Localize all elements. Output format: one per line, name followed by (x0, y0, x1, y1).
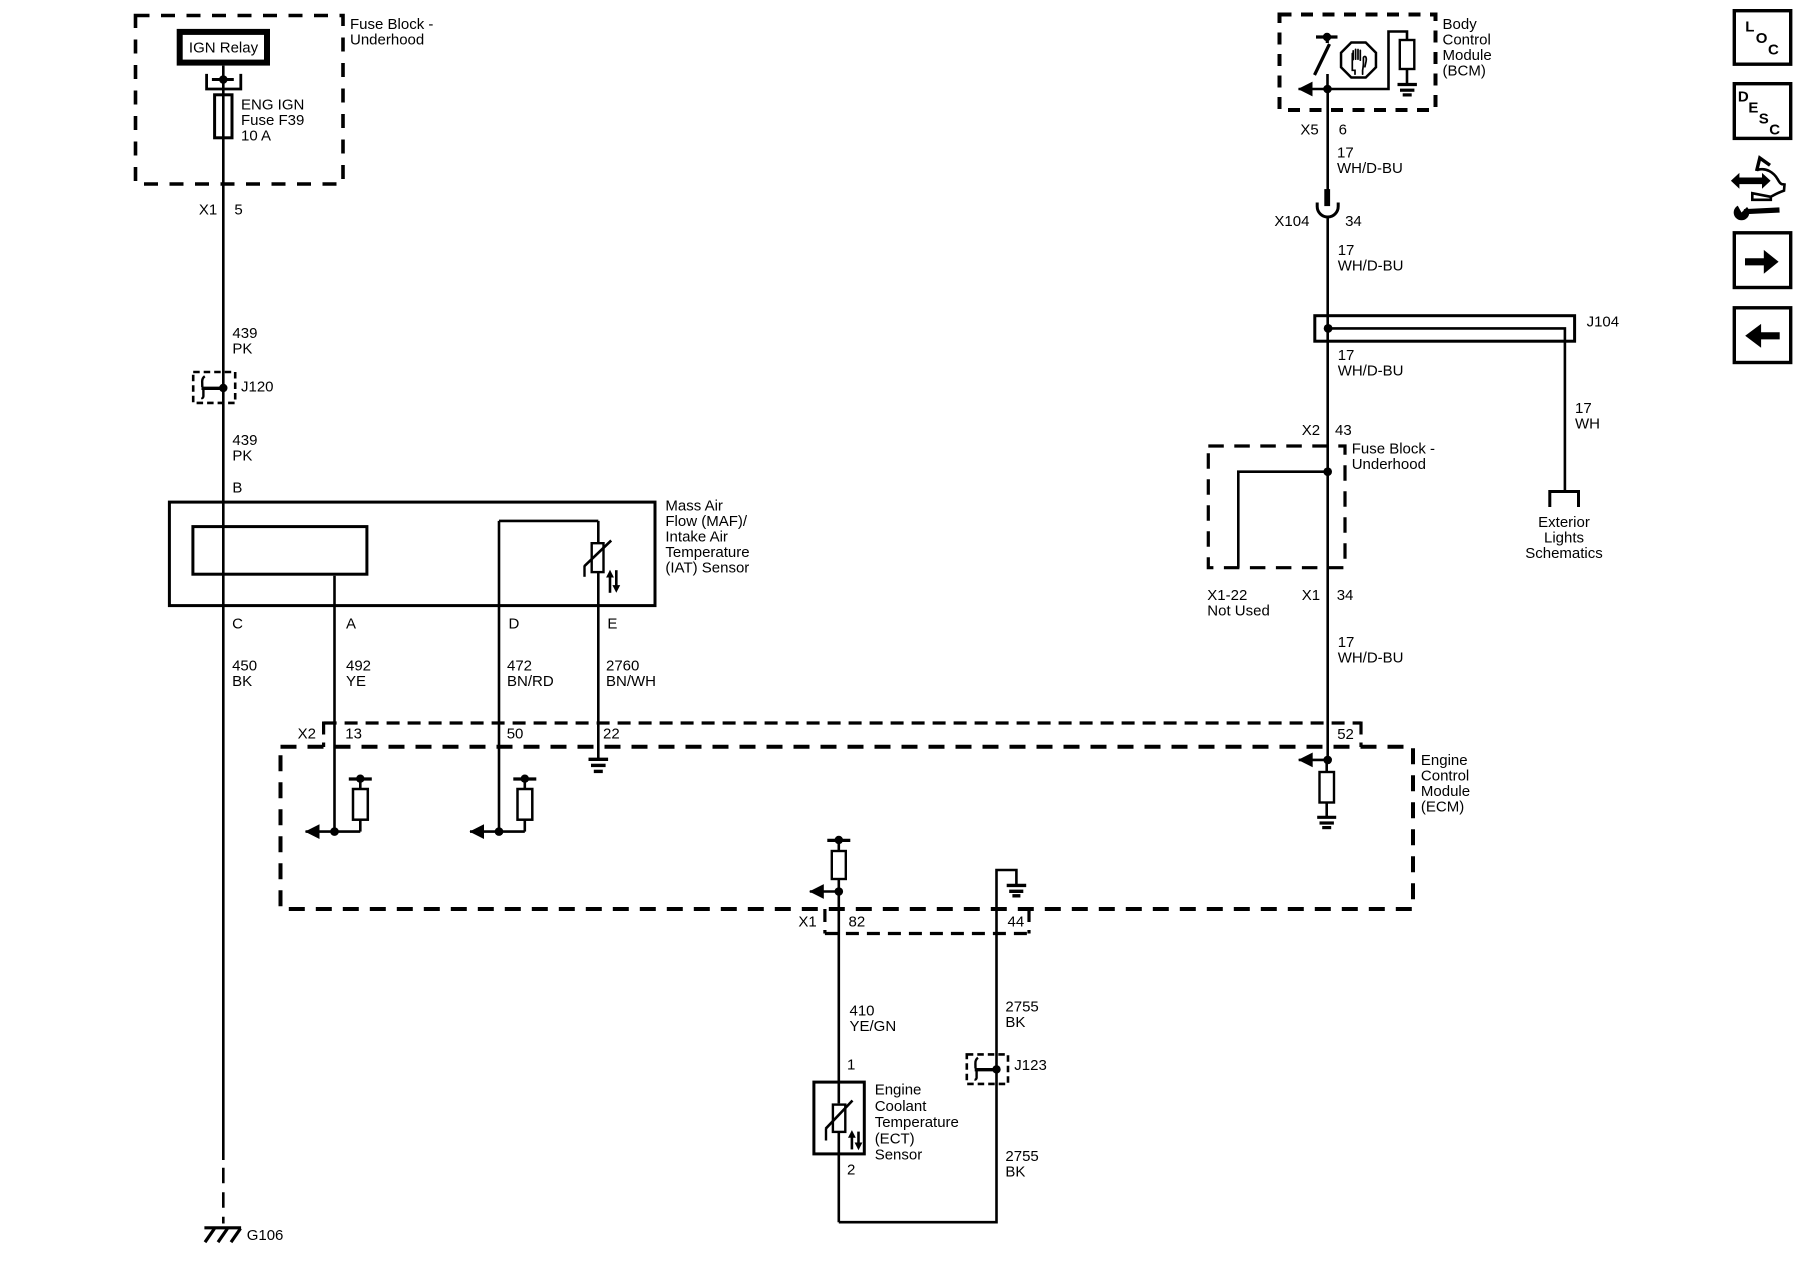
IAT thermistor diagonal foot (583, 566, 585, 577)
fuse block internal jumper wire (1238, 472, 1327, 568)
MAF sensor inner block (193, 527, 367, 575)
svg-text:1: 1 (847, 1056, 855, 1073)
svg-text:O: O (1756, 30, 1768, 47)
ECT sensor label (875, 1082, 959, 1164)
svg-text:43: 43 (1335, 422, 1352, 439)
connector X5 pin 6 labels (1300, 121, 1347, 138)
exterior lights schematics label (1525, 514, 1603, 562)
ECM pin 82 internal: resistor bottom stub (837, 879, 840, 892)
wire from IGN relay to G106 (circuit 439/450) (222, 66, 225, 1160)
svg-text:X1: X1 (199, 202, 217, 219)
svg-text:Fuse Block -: Fuse Block - (1352, 440, 1435, 457)
svg-text:Module: Module (1421, 783, 1470, 800)
MAF/IAT sensor box (169, 502, 655, 605)
BCM internal switch blade (1315, 37, 1330, 75)
svg-text:WH/D-BU: WH/D-BU (1338, 363, 1404, 380)
svg-text:X2: X2 (298, 726, 316, 743)
svg-text:Intake Air: Intake Air (665, 529, 728, 546)
ECM pin 44 internal ground (1007, 885, 1026, 895)
wire IAT pin E (circuit 2760) to ECM ground (597, 573, 600, 760)
splice J123 clip symbol (975, 1058, 997, 1080)
fuse block underhood (right) label (1352, 440, 1435, 473)
ECM pin 82 internal: pull-up resistor (832, 851, 846, 879)
wire IAT pin D (circuit 472) (498, 521, 501, 832)
ECM pin 50 internal: arrow to other circuits (469, 824, 524, 839)
ECM pin 52 internal: pull-down resistor (1320, 772, 1335, 803)
svg-text:E: E (607, 616, 617, 633)
relay output terminal bracket (207, 74, 241, 89)
svg-text:450: 450 (232, 658, 257, 675)
svg-text:Underhood: Underhood (350, 32, 424, 49)
IAT thermistor diagonal (584, 541, 611, 567)
BCM dashed box (1280, 15, 1436, 111)
svg-text:J104: J104 (1587, 314, 1620, 331)
svg-text:BN/RD: BN/RD (507, 673, 554, 690)
wire label 450 BK (232, 658, 257, 691)
BCM internal arrow to other circuits (1298, 82, 1328, 97)
wire BCM X5-6 down to X104 (circuit 17) (1326, 89, 1329, 190)
wire label 439 PK (upper) (232, 325, 257, 358)
BCM internal junction dot (1323, 85, 1332, 94)
wire label 17 WH/D-BU (1st) (1337, 144, 1403, 177)
relay IGN Relay box (180, 32, 267, 63)
svg-text:13: 13 (345, 726, 362, 743)
svg-text:Temperature: Temperature (875, 1114, 959, 1131)
IAT down arrow (612, 570, 620, 593)
splice bus J104 junction dot (1324, 324, 1333, 333)
wire ECM X1-44 to ECT return (circuit 2755) (839, 908, 997, 1222)
svg-text:YE/GN: YE/GN (850, 1018, 897, 1035)
BCM hand icon (1352, 49, 1366, 74)
svg-text:Engine: Engine (875, 1082, 922, 1099)
wire label 439 PK (lower) (232, 432, 257, 465)
svg-text:492: 492 (346, 658, 371, 675)
sidebar service icon double arrow (1731, 173, 1771, 189)
svg-text:Schematics: Schematics (1525, 545, 1603, 562)
wire label 2760 BN/WH (606, 658, 656, 691)
svg-text:Temperature: Temperature (665, 544, 749, 561)
svg-text:Engine: Engine (1421, 752, 1468, 769)
sidebar service icon wrench (1734, 202, 1780, 221)
MAF pin letters C A D E (232, 616, 617, 633)
svg-text:2755: 2755 (1005, 1148, 1038, 1165)
svg-text:D: D (1738, 89, 1749, 106)
ECM pin 13 internal: voltage reference bar with dot (349, 775, 372, 783)
ECM pin 52 internal: resistor bottom stub (1325, 803, 1328, 818)
sidebar DESC letters (1738, 89, 1780, 139)
ECM label (1421, 752, 1470, 816)
svg-text:B: B (232, 480, 242, 497)
svg-text:5: 5 (234, 202, 242, 219)
sidebar LOC letters (1745, 18, 1779, 58)
ECT down arrow (855, 1132, 863, 1151)
ECM pin 50 internal: voltage reference bar with dot (513, 775, 536, 783)
wire label 472 BN/RD (507, 658, 554, 691)
svg-text:X1: X1 (798, 914, 816, 931)
svg-text:52: 52 (1337, 726, 1354, 743)
svg-text:L: L (1745, 18, 1754, 35)
wire X104 to J104 (1326, 217, 1329, 760)
ECT sensor box (814, 1082, 864, 1154)
svg-text:A: A (346, 616, 356, 633)
IAT thermistor body (592, 543, 604, 572)
connector X1-22 not used label (1207, 587, 1270, 620)
svg-text:22: 22 (603, 726, 620, 743)
connector X1 pin 34 labels (1302, 587, 1354, 604)
ECM pin 13 internal: resistor top stub (359, 779, 362, 789)
wire IAT top link pin D (499, 520, 598, 523)
svg-text:J123: J123 (1014, 1057, 1047, 1074)
svg-text:WH/D-BU: WH/D-BU (1338, 650, 1404, 667)
IAT up arrow (606, 570, 614, 593)
wire MAF pin A (circuit 492) (333, 576, 336, 832)
svg-text:10 A: 10 A (241, 128, 271, 145)
svg-text:BK: BK (1005, 1014, 1025, 1031)
svg-text:Underhood: Underhood (1352, 456, 1426, 473)
fuse block underhood (right) dashed box (1208, 446, 1345, 568)
ECM pin 22 ground (589, 759, 609, 771)
svg-text:BK: BK (232, 673, 252, 690)
wire label 492 YE (346, 658, 371, 691)
svg-text:PK: PK (232, 341, 252, 358)
svg-text:WH/D-BU: WH/D-BU (1338, 258, 1404, 275)
svg-text:C: C (1769, 121, 1780, 138)
svg-text:34: 34 (1345, 213, 1362, 230)
svg-text:Exterior: Exterior (1538, 514, 1590, 531)
svg-text:82: 82 (849, 914, 866, 931)
wire label 17 WH (1575, 400, 1600, 433)
svg-text:17: 17 (1338, 347, 1355, 364)
svg-text:Body: Body (1443, 16, 1478, 33)
svg-text:IGN Relay: IGN Relay (189, 39, 259, 56)
splice J120 dashed box (193, 372, 235, 403)
ECM pin 13 internal: arrow to other circuits (305, 824, 360, 839)
svg-text:439: 439 (232, 432, 257, 449)
svg-text:J120: J120 (241, 379, 274, 396)
splice J123 dashed box (967, 1054, 1008, 1084)
fuse F39 ENG IGN 10A (215, 95, 232, 138)
svg-text:439: 439 (232, 325, 257, 342)
BCM hand octagon (driver alert) (1341, 43, 1376, 78)
svg-text:PK: PK (232, 448, 252, 465)
wire ECT pin 2 to return (837, 1132, 840, 1222)
BCM internal switch dot (1323, 33, 1331, 41)
svg-text:2760: 2760 (606, 658, 639, 675)
connector X1 strip (ECM bottom) (825, 909, 1029, 934)
svg-text:X1: X1 (1302, 587, 1320, 604)
svg-text:17: 17 (1338, 242, 1355, 259)
ECM pin 50 internal: junction dot (495, 827, 504, 836)
svg-text:Control: Control (1421, 768, 1469, 785)
sidebar next arrow (1745, 250, 1779, 274)
svg-text:Module: Module (1443, 47, 1492, 64)
sidebar service icon outline curve (1752, 169, 1784, 200)
fuse F39 label (241, 97, 304, 145)
svg-text:410: 410 (850, 1003, 875, 1020)
svg-text:X5: X5 (1300, 121, 1318, 138)
svg-text:2755: 2755 (1005, 999, 1038, 1016)
BCM internal resistor (1400, 40, 1415, 69)
svg-text:Sensor: Sensor (875, 1147, 923, 1164)
wire dashed segment to G106 (222, 1168, 225, 1224)
BCM internal ground (1398, 85, 1417, 95)
svg-text:Coolant: Coolant (875, 1098, 928, 1115)
ECM pin 82 internal: junction dot (835, 887, 844, 896)
connector X2 pin 43 labels (1302, 422, 1352, 439)
svg-text:D: D (509, 616, 520, 633)
ECM pin 52 internal: resistor top stub (1325, 760, 1328, 772)
BCM internal switch bar (1316, 35, 1338, 38)
sidebar LOC button box (1734, 11, 1790, 64)
svg-text:(ECM): (ECM) (1421, 799, 1464, 816)
svg-text:WH/D-BU: WH/D-BU (1337, 160, 1403, 177)
relay terminal junction dot (219, 75, 228, 84)
fuse block underhood label (350, 16, 433, 49)
svg-text:2: 2 (847, 1162, 855, 1179)
connector X1 pin 5 label (199, 202, 243, 219)
svg-text:E: E (1748, 100, 1758, 117)
BCM internal loop wire to resistor (1328, 32, 1408, 90)
ECM pin 52 internal: junction dot (1323, 756, 1332, 765)
svg-text:BK: BK (1005, 1164, 1025, 1181)
wire label 17 WH/D-BU (3rd) (1338, 347, 1404, 380)
svg-text:Lights: Lights (1544, 530, 1584, 547)
svg-text:X2: X2 (1302, 422, 1320, 439)
ECM pin 50 internal: pull-up resistor (518, 789, 533, 820)
wire label 17 WH/D-BU (4th) (1338, 634, 1404, 667)
ECM pin 44 internal wire to ground (997, 870, 1017, 908)
in-line connector X104: female terminal tick (1324, 189, 1330, 206)
ECM pin 52 internal: arrow to other circuits (1298, 753, 1328, 768)
svg-text:C: C (1768, 42, 1779, 59)
svg-text:17: 17 (1337, 144, 1354, 161)
BCM internal resistor bottom stub (1406, 69, 1409, 85)
svg-text:Flow (MAF)/: Flow (MAF)/ (665, 513, 747, 530)
wire label 2755 BK (upper) (1005, 999, 1038, 1032)
svg-text:C: C (232, 616, 243, 633)
splice bus J104 outer box (1315, 316, 1575, 342)
svg-text:17: 17 (1338, 634, 1355, 651)
ECM pin 52 internal ground (1317, 817, 1336, 827)
sidebar DESC button box (1734, 84, 1790, 139)
in-line connector X104: male arc (1317, 203, 1338, 218)
ECM pin 50 internal: resistor bottom stub (523, 820, 526, 832)
svg-text:44: 44 (1008, 914, 1025, 931)
ECT thermistor body (833, 1105, 845, 1132)
wire label 2755 BK (lower) (1005, 1148, 1038, 1181)
sidebar service icon outline arrowhead (1757, 158, 1770, 171)
svg-text:Mass Air: Mass Air (665, 498, 723, 515)
svg-text:50: 50 (507, 726, 524, 743)
ECM pin 13 internal: pull-up resistor (353, 789, 368, 820)
sidebar back button box (1734, 308, 1790, 363)
splice bus J104 inner bar to branch (1328, 328, 1565, 490)
splice J123 junction dot (992, 1065, 1000, 1073)
svg-text:472: 472 (507, 658, 532, 675)
svg-text:Not Used: Not Used (1207, 603, 1270, 620)
fuse block internal junction dot (1323, 467, 1332, 476)
svg-text:(ECT): (ECT) (875, 1130, 915, 1147)
svg-text:Control: Control (1443, 32, 1491, 49)
fuse block underhood (top-left) dashed box (136, 16, 344, 185)
svg-text:BN/WH: BN/WH (606, 673, 656, 690)
ECM pin 50 internal: resistor top stub (523, 779, 526, 789)
svg-text:WH: WH (1575, 416, 1600, 433)
ECT thermistor diagonal foot (825, 1128, 827, 1140)
ECM pin 82 internal: arrow to other circuits (809, 884, 839, 899)
svg-text:ENG IGN: ENG IGN (241, 97, 304, 114)
ECM dashed box (281, 747, 1414, 909)
svg-text:34: 34 (1337, 587, 1354, 604)
svg-text:S: S (1759, 110, 1769, 127)
wire ECM X1-82 to ECT pin 1 (circuit 410) (837, 892, 840, 1104)
IAT thermistor feed wire (597, 521, 600, 543)
ground G106 chassis symbol (204, 1228, 241, 1242)
svg-text:17: 17 (1575, 400, 1592, 417)
sidebar next button box (1734, 233, 1790, 288)
connector X2 strip (ECM top) (324, 722, 1361, 748)
relay terminal bar (212, 78, 234, 81)
ECT up arrow (848, 1130, 856, 1149)
svg-text:Fuse F39: Fuse F39 (241, 112, 304, 129)
off-page connector to exterior lights (1550, 492, 1579, 508)
ECM pin 13 internal: junction dot (330, 827, 339, 836)
splice J120 clip symbol (201, 376, 223, 398)
ECM pin 82 internal: voltage reference bar with dot (827, 836, 850, 844)
svg-text:(IAT) Sensor: (IAT) Sensor (665, 560, 749, 577)
svg-text:Fuse Block -: Fuse Block - (350, 16, 433, 33)
wire label 410 YE/GN (850, 1003, 897, 1036)
BCM label (1443, 16, 1492, 80)
splice J120 junction dot (219, 384, 227, 392)
MAF/IAT sensor label (665, 498, 749, 577)
svg-text:X1-22: X1-22 (1207, 587, 1247, 604)
ECM pin 82 internal: resistor top stub (837, 840, 840, 851)
ECT thermistor diagonal (826, 1101, 853, 1129)
BCM internal wire from switch to junction (1326, 74, 1329, 89)
svg-text:6: 6 (1339, 121, 1347, 138)
svg-text:YE: YE (346, 673, 366, 690)
svg-text:(BCM): (BCM) (1443, 63, 1486, 80)
sidebar back arrow (1745, 324, 1780, 348)
ECM pin 13 internal: resistor bottom stub (359, 820, 362, 832)
svg-text:X104: X104 (1274, 213, 1309, 230)
svg-text:G106: G106 (247, 1227, 284, 1244)
wire label 17 WH/D-BU (2nd) (1338, 242, 1404, 275)
